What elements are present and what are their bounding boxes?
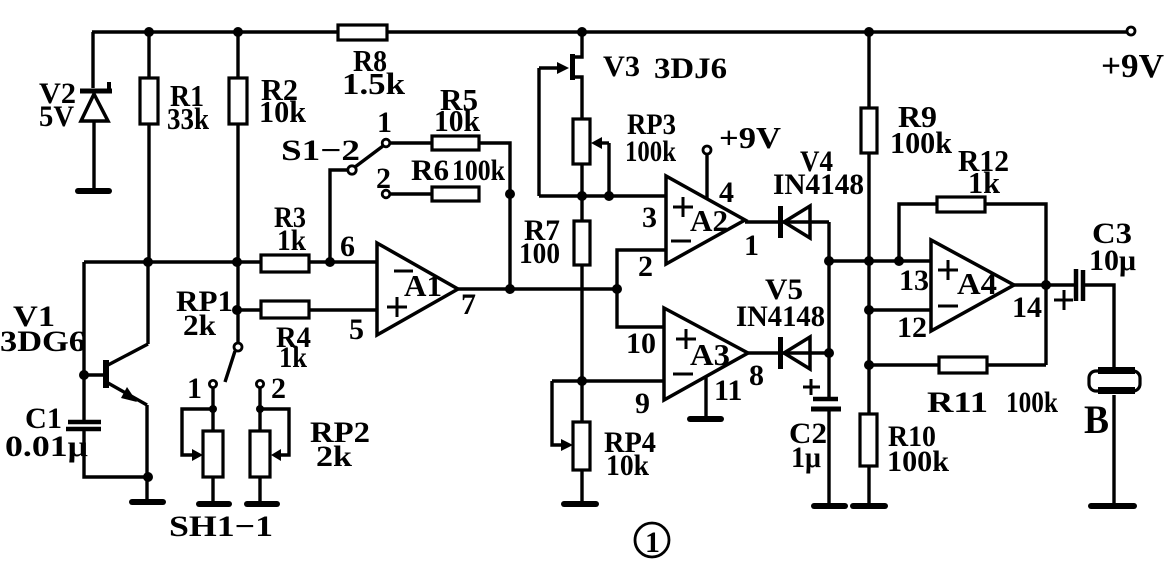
resistor R9 100k: [861, 99, 953, 160]
pin 3 label: [642, 201, 657, 234]
wire A4 output: [1014, 283, 1074, 286]
svg-text:3DJ6: 3DJ6: [654, 52, 727, 85]
wire R7 down to pin9 bus: [580, 265, 583, 381]
capacitor C3 10u: [1054, 217, 1136, 310]
node rail-R9 junction: [864, 27, 874, 37]
wire A3 pin9 bus (y381): [552, 379, 664, 382]
svg-text:4: 4: [719, 176, 734, 209]
svg-text:14: 14: [1012, 291, 1042, 324]
node output-R11 junction: [1041, 280, 1051, 290]
svg-text:100k: 100k: [625, 135, 676, 168]
pin 5 label: [349, 313, 364, 346]
ground below V1 emitter: [132, 499, 163, 505]
svg-text:9: 9: [635, 387, 650, 420]
wire A2 pin3 bus (y196): [539, 194, 666, 197]
zener diode V2 5V: [39, 77, 112, 133]
svg-text:+9V: +9V: [719, 120, 782, 155]
pin 12 label: [897, 311, 927, 344]
node RP3 wiper junction: [604, 191, 614, 201]
svg-text:8: 8: [749, 359, 764, 392]
wire to A3 pin10: [617, 289, 664, 327]
svg-text:A3: A3: [690, 337, 730, 372]
svg-text:0.01μ: 0.01μ: [5, 430, 88, 463]
wire A2 output: [745, 220, 829, 223]
svg-text:100: 100: [519, 237, 560, 270]
svg-text:10k: 10k: [606, 449, 649, 482]
node R11 left junction: [864, 360, 874, 370]
svg-text:1μ: 1μ: [791, 441, 821, 474]
wire V3 drain from rail: [574, 32, 582, 57]
wire V1 collector-base: [79, 262, 148, 380]
ground A3 pin11: [690, 416, 721, 422]
op-amp A2: [666, 176, 745, 264]
resistor R6 100k: [411, 154, 505, 201]
svg-text:12: 12: [897, 311, 927, 344]
svg-text:10μ: 10μ: [1089, 244, 1136, 277]
svg-text:3: 3: [642, 201, 657, 234]
transistor V3 3DJ6: [539, 50, 727, 119]
svg-text:3DG6: 3DG6: [0, 325, 86, 358]
svg-text:IN4148: IN4148: [736, 300, 825, 333]
svg-text:2: 2: [376, 162, 391, 195]
wire A4 pin12 bus (y310): [869, 308, 931, 311]
node R1 bottom junction: [143, 257, 153, 267]
wire C3 to B: [1085, 285, 1114, 367]
node output-feedback junction: [505, 284, 515, 294]
switch SH1-1 pivot: [225, 343, 242, 382]
svg-text:R11: R11: [927, 386, 988, 419]
node contact1 bracket junction: [209, 405, 217, 413]
resistor R1 33k: [140, 78, 210, 136]
ground below RP2-a: [199, 501, 229, 507]
op-amp A1: [377, 243, 458, 335]
pin 4 label: [719, 176, 734, 209]
pin 2 label: [638, 250, 653, 283]
node R7-RP4 junction: [577, 376, 587, 386]
wire A3 pin11 ground lead: [704, 377, 707, 417]
switch S1 contact 1: [377, 106, 392, 147]
resistor R12 1k: [937, 143, 1009, 212]
node A2 +9V supply terminal: [703, 120, 782, 198]
pin 9 label: [635, 387, 650, 420]
svg-text:33k: 33k: [167, 101, 210, 136]
node R9 crossing junction: [864, 256, 874, 266]
ground below C2: [814, 503, 845, 509]
svg-text:100k: 100k: [1006, 386, 1058, 419]
ground below B: [1091, 503, 1134, 509]
wire V2 branch: [93, 32, 94, 189]
switch S1 contact 2: [376, 162, 391, 198]
switch SH1-1 contact 2: [256, 372, 286, 405]
svg-text:B: B: [1084, 397, 1109, 442]
node +9V rail terminal: [1127, 27, 1135, 35]
wire contact2 to R6: [390, 192, 432, 195]
wire feedback down to output: [508, 194, 511, 289]
svg-text:+9V: +9V: [1101, 48, 1164, 85]
wire V4 down to node: [827, 222, 830, 397]
node rail-R2 junction: [233, 27, 243, 37]
node R12 branch junction: [894, 256, 904, 266]
ground below R10: [853, 503, 885, 509]
svg-text:1: 1: [377, 106, 392, 139]
transistor V1 3DG6: [0, 300, 147, 405]
svg-text:V3: V3: [603, 50, 640, 83]
label RP1 2k: [176, 285, 233, 342]
ground below RP2-b: [247, 501, 277, 507]
wire contact1 to R5: [390, 141, 432, 144]
pin 1 label: [744, 229, 759, 262]
resistor R4 1k: [261, 301, 311, 374]
potentiometer RP4 10k: [552, 381, 656, 502]
node R10 top junction: [864, 305, 874, 315]
svg-text:10k: 10k: [434, 103, 481, 138]
wire A1 output: [458, 287, 617, 290]
node R2 bottom junction: [232, 257, 242, 267]
wire A4 pin13 bus (y261): [829, 259, 931, 262]
switch SH1-1 contact 1: [187, 372, 217, 405]
wire R12 feedback loop: [899, 204, 1046, 365]
svg-text:1k: 1k: [279, 341, 307, 374]
svg-text:13: 13: [899, 264, 929, 297]
ground below V2: [78, 188, 109, 194]
wire V3 gate down: [537, 68, 540, 196]
wire A3 output: [748, 351, 829, 354]
wire R9-R10 branch: [867, 32, 870, 414]
node rail-R1 junction: [144, 27, 154, 37]
svg-text:IN4148: IN4148: [773, 168, 864, 201]
resistor R3 1k: [261, 201, 309, 272]
ground below RP4: [564, 501, 596, 507]
svg-text:10k: 10k: [259, 94, 307, 129]
wire R5 right to node: [479, 143, 510, 194]
node V4-bus junction: [824, 256, 834, 266]
svg-text:1: 1: [744, 229, 759, 262]
svg-text:1: 1: [187, 372, 202, 405]
op-amp A4: [931, 240, 1014, 331]
resistor R10 100k: [860, 414, 949, 504]
wire node-A bus (y262): [84, 260, 377, 263]
wire switch S1 common: [330, 170, 348, 262]
wire R2 branch: [236, 32, 239, 343]
svg-text:2k: 2k: [183, 309, 216, 342]
node emitter-C1 junction: [143, 472, 153, 482]
svg-text:2: 2: [271, 372, 286, 405]
svg-text:1k: 1k: [277, 224, 306, 257]
resistor R2 10k: [229, 72, 307, 129]
svg-text:5: 5: [349, 313, 364, 346]
resistor R8: [338, 25, 406, 101]
node rail-V3 junction: [577, 27, 587, 37]
wire to A2 pin2: [617, 250, 666, 289]
wire +9V top rail: [92, 30, 1127, 33]
node +9V label: [1101, 48, 1164, 85]
svg-text:1: 1: [645, 526, 660, 559]
op-amp A3: [664, 308, 748, 400]
pin 14 label: [1012, 291, 1042, 324]
capacitor C1 0.01u: [5, 375, 148, 477]
capacitor C2 1u polarity: [789, 379, 841, 504]
pin 13 label: [899, 264, 929, 297]
wire contact1 to pot: [182, 388, 213, 461]
wire V1 emitter down: [145, 405, 148, 500]
svg-text:SH1−1: SH1−1: [169, 510, 273, 543]
switch S1-2 pivot and blade: [281, 134, 383, 174]
wire R4 input line: [237, 308, 377, 311]
svg-text:100k: 100k: [452, 154, 505, 187]
figure number 1: [635, 523, 669, 559]
svg-text:5V: 5V: [39, 100, 74, 133]
diode V4 IN4148: [773, 145, 864, 238]
potentiometer RP2-b 2k: [250, 416, 370, 501]
node V5-C2 junction: [824, 348, 834, 358]
svg-text:1.5k: 1.5k: [342, 66, 406, 101]
svg-text:6: 6: [340, 230, 355, 263]
sounder B: [1084, 367, 1140, 504]
node RP3 bottom junction: [577, 191, 587, 201]
resistor R7 100: [519, 214, 590, 270]
wire R1 branch: [147, 32, 150, 262]
svg-text:A1: A1: [404, 268, 442, 303]
node R5-R6 junction: [505, 189, 515, 199]
resistor R11 100k: [927, 357, 1058, 419]
svg-text:2: 2: [638, 250, 653, 283]
node contact2 bracket junction: [256, 405, 264, 413]
svg-text:S1−2: S1−2: [281, 134, 360, 167]
pin 8 label: [749, 359, 764, 392]
node output split junction: [612, 284, 622, 294]
pin 10 label: [626, 327, 656, 360]
pin 11 label: [714, 374, 742, 407]
node R4 junction on R2 line: [232, 305, 242, 315]
potentiometer RP3 100k: [573, 108, 676, 196]
node R3-switch junction: [325, 257, 335, 267]
pin 6 label: [340, 230, 355, 263]
wire RP3 to R7: [580, 164, 583, 221]
svg-text:1k: 1k: [968, 165, 1001, 200]
svg-text:A4: A4: [957, 266, 997, 301]
svg-text:7: 7: [461, 288, 476, 321]
svg-text:10: 10: [626, 327, 656, 360]
svg-text:2k: 2k: [316, 440, 352, 473]
svg-text:100k: 100k: [890, 125, 953, 160]
potentiometer RP2-a: [203, 431, 223, 501]
svg-text:100k: 100k: [887, 445, 949, 478]
label SH1-1: [169, 510, 273, 543]
diode V5 IN4148: [736, 273, 825, 369]
svg-text:11: 11: [714, 374, 742, 407]
svg-text:R6: R6: [411, 154, 449, 187]
wire contact2 to pot: [260, 388, 289, 461]
wire R11 bus (y365): [869, 363, 1046, 366]
pin 7 label: [461, 288, 476, 321]
resistor R5 10k: [432, 82, 481, 150]
